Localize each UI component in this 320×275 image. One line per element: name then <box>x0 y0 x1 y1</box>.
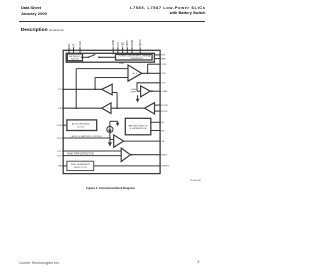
svg-text:VCC: VCC <box>118 41 120 46</box>
op-amp A6 <box>114 135 124 147</box>
svg-text:AGND: AGND <box>112 40 115 47</box>
wire A4 output to A3 input <box>111 107 145 109</box>
wire switch to conditioner <box>99 56 116 58</box>
ringing detector block <box>67 161 94 170</box>
pin VBAT2 (top) <box>139 47 141 54</box>
op-amp A5 (level shift) <box>141 86 151 97</box>
pin DCF bus wire <box>62 137 110 139</box>
pin VBAT1 (top) <box>126 47 128 54</box>
svg-text:BGND: BGND <box>132 40 134 47</box>
header left: date <box>21 11 47 16</box>
pin B1 wire <box>151 121 161 123</box>
svg-text:PR: PR <box>58 108 61 110</box>
svg-text:RGDET: RGDET <box>161 166 169 168</box>
svg-text:VBAT2: VBAT2 <box>139 39 142 47</box>
svg-text:AC/DC & BATTERY CONTROL: AC/DC & BATTERY CONTROL <box>72 135 104 138</box>
footer company <box>20 261 61 265</box>
wire A2 inverting input <box>76 68 128 70</box>
junction on PT line <box>94 88 96 90</box>
battery-switch assembly box <box>66 53 154 62</box>
arrow into I1 control <box>117 121 119 123</box>
op-amp A2 (line driver) <box>128 65 142 81</box>
svg-text:TA: TA <box>161 140 164 143</box>
wire A7 output to RDET pin <box>131 154 133 156</box>
pin VITR wire <box>62 124 66 126</box>
pin BGND (top) <box>131 47 133 54</box>
svg-text:VITX: VITX <box>161 64 166 66</box>
wire A1 input stub <box>113 92 118 94</box>
pin RCVP wire <box>155 110 161 112</box>
svg-text:TXI: TXI <box>161 83 165 85</box>
stub to pin BSW <box>154 54 160 56</box>
pin TXI feedback wire <box>137 82 161 84</box>
svg-text:RB: RB <box>58 166 62 168</box>
ground <box>109 143 111 145</box>
svg-text:−1: −1 <box>107 89 109 91</box>
pin DT1 wire (ring trip +) <box>62 150 121 152</box>
svg-text:CAS1: CAS1 <box>79 40 82 47</box>
svg-text:LOGIC: LOGIC <box>77 126 85 128</box>
svg-text:VITR: VITR <box>56 125 61 127</box>
ground at A5 <box>137 95 139 99</box>
junction DC bus <box>109 137 111 139</box>
pin B2 wire <box>151 130 161 132</box>
stub to pin VRG <box>154 58 160 60</box>
svg-text:VTX: VTX <box>161 73 166 75</box>
svg-text:REF: REF <box>161 58 166 60</box>
battery switch control block <box>125 118 151 135</box>
svg-text:B2: B2 <box>161 130 164 132</box>
svg-text:SHIFT: SHIFT <box>131 92 137 94</box>
pin RV (top) <box>68 47 70 54</box>
wire I1 top <box>109 121 111 126</box>
pin RB wire <box>62 165 67 167</box>
wire receive tap riser <box>116 93 118 109</box>
heading Description <box>21 28 64 33</box>
wire branch to VITX pin <box>147 64 149 73</box>
svg-text:BATTERY SWITCH: BATTERY SWITCH <box>128 124 148 127</box>
pin CF (top) <box>73 47 75 54</box>
svg-text:AC/DC/RINGING: AC/DC/RINGING <box>72 122 90 125</box>
power conditioner block <box>116 54 153 60</box>
pin VEE (top) <box>122 47 124 54</box>
svg-text:DT1: DT1 <box>57 151 62 153</box>
wire A2 output to VTX pin <box>142 72 161 74</box>
svg-text:A=−4: A=−4 <box>133 72 138 75</box>
svg-text:RV: RV <box>69 43 71 47</box>
wire PT sense riser <box>94 78 96 90</box>
svg-text:12-4064 (F): 12-4064 (F) <box>190 180 202 182</box>
header right: title line 1 <box>130 5 206 10</box>
pin AGND (top) <box>112 47 114 54</box>
svg-text:CF: CF <box>73 43 75 47</box>
wire I1 bottom to ground <box>109 133 111 144</box>
wire A5 output to VITAC pin <box>150 90 161 92</box>
pin DT2 wire (ring trip -) <box>62 155 121 157</box>
figure caption <box>8 187 213 190</box>
svg-text:REFERENCE: REFERENCE <box>131 58 144 60</box>
svg-text:−1: −1 <box>106 108 108 110</box>
header right: title line 2 <box>170 10 206 15</box>
svg-text:RING TRIP DETECTOR: RING TRIP DETECTOR <box>67 152 94 155</box>
pin CAS1 (top) <box>79 47 81 54</box>
switch S1 wire <box>81 56 88 58</box>
pin PR wire <box>62 107 102 109</box>
pin RCVN wire <box>155 104 161 106</box>
svg-text:& SUPERVISION: & SUPERVISION <box>130 128 147 130</box>
junction receive line <box>116 107 118 109</box>
switch pole dot <box>87 56 89 58</box>
svg-text:RING GENERATOR: RING GENERATOR <box>71 163 90 166</box>
switch S1 blade <box>88 55 95 58</box>
footer page number <box>197 260 199 264</box>
functional block diagram <box>0 0 213 275</box>
svg-text:DCF: DCF <box>57 138 62 140</box>
wire A6 output to TA pin <box>110 138 114 140</box>
header left: Data Sheet <box>21 5 41 10</box>
svg-text:VITAC: VITAC <box>161 90 168 93</box>
svg-text:RDET: RDET <box>161 155 168 157</box>
outer block-diagram border <box>63 50 160 173</box>
op-amp A3 (ring driver) <box>102 103 111 114</box>
svg-text:VREF: VREF <box>119 63 125 65</box>
svg-text:DETECTOR: DETECTOR <box>74 167 87 169</box>
junction A2 output <box>147 72 149 74</box>
svg-text:VBAT1: VBAT1 <box>126 39 129 47</box>
switch throw dot <box>98 56 100 58</box>
svg-text:SWITCH: SWITCH <box>71 59 79 61</box>
comparator A7 (ring trip) <box>121 148 130 161</box>
wire PR sense riser <box>75 69 77 109</box>
loop supervision block <box>67 120 97 131</box>
header rule <box>19 21 205 22</box>
wire A6 output to TA pin <box>124 140 161 142</box>
svg-text:BAT SELECT: BAT SELECT <box>69 55 81 58</box>
junction on PR line <box>75 107 77 109</box>
svg-text:B1: B1 <box>161 122 164 124</box>
pin VCC (top) <box>117 47 119 54</box>
op-amp A4 (receive amp) <box>145 103 155 114</box>
svg-text:PT: PT <box>59 89 62 91</box>
svg-text:RCVP: RCVP <box>161 111 168 113</box>
svg-text:SW: SW <box>161 55 165 57</box>
op-amp A1 (tip driver) <box>102 84 113 95</box>
svg-text:DT2: DT2 <box>57 156 62 158</box>
pin PT wire <box>62 88 102 90</box>
battery switch block <box>67 54 82 61</box>
wire A2 noninverting input <box>95 77 128 79</box>
svg-text:RCVN: RCVN <box>161 105 168 107</box>
svg-text:VEE: VEE <box>123 42 125 47</box>
wire to RGDET pin <box>94 165 161 167</box>
current source I1 <box>107 126 113 132</box>
